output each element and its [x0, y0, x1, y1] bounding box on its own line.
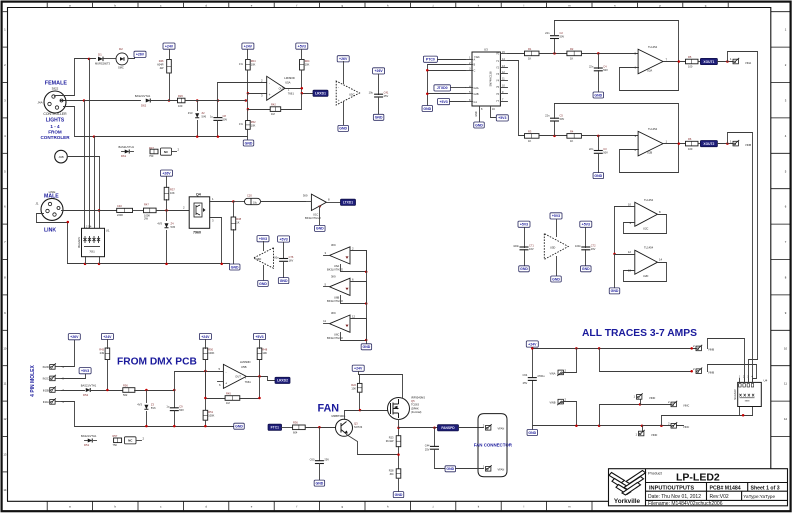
- svg-text:CONTROLER: CONTROLER: [40, 135, 70, 140]
- svg-text:1M: 1M: [271, 112, 275, 116]
- svg-text:NBN: NBN: [745, 401, 750, 403]
- signal LRXD2: [275, 377, 290, 383]
- svg-text:GND: GND: [259, 282, 267, 286]
- svg-text:J4A: J4A: [37, 100, 42, 104]
- title block: [609, 469, 788, 506]
- svg-text:U6B: U6B: [334, 296, 339, 300]
- svg-text:+5V3: +5V3: [298, 44, 306, 48]
- svg-text:Filename: M1484V02schuch2006: Filename: M1484V02schuch2006: [648, 501, 723, 507]
- rail junctions: [93, 135, 96, 138]
- svg-text:R56: R56: [123, 383, 128, 387]
- power +24V dmx2: [199, 333, 211, 339]
- resistor R1: [525, 51, 540, 56]
- svg-text:BAS21/VTH1: BAS21/VTH1: [135, 94, 151, 98]
- svg-text:U2B: U2B: [647, 151, 652, 155]
- pin VIND2: [642, 426, 644, 431]
- svg-text:U3: U3: [484, 47, 488, 51]
- power +24V dist: [526, 341, 538, 347]
- svg-text:R46: R46: [159, 59, 164, 63]
- wire ftc1 to r36: [282, 427, 293, 429]
- svg-text:2200: 2200: [117, 213, 123, 217]
- connector J4B: [55, 150, 68, 163]
- wire vinb to bus B: [728, 133, 753, 383]
- svg-text:Q3: Q3: [354, 422, 358, 426]
- wire IN2C to +5V3: [62, 374, 86, 379]
- svg-text:R3: R3: [528, 129, 532, 133]
- svg-text:R37: R37: [170, 188, 175, 192]
- svg-text:GND: GND: [446, 467, 454, 471]
- svg-text:OUT: OUT: [279, 86, 285, 90]
- svg-text:7661: 7661: [89, 251, 95, 254]
- svg-text:U4: U4: [764, 379, 768, 383]
- svg-text:50V: 50V: [560, 117, 565, 121]
- svg-text:4700u: 4700u: [537, 374, 545, 378]
- svg-text:GND: GND: [339, 127, 347, 131]
- svg-text:R57: R57: [113, 434, 118, 438]
- signal LTXD1: [341, 199, 356, 205]
- svg-text:1K: 1K: [570, 57, 573, 61]
- wire y1 to r3: [508, 61, 525, 136]
- capacitor C5 feedback: [554, 122, 556, 136]
- wire r2 to opamp: [582, 53, 639, 55]
- wire u4 top pins: [739, 379, 741, 383]
- wire u2b feedback loop: [555, 104, 679, 173]
- svg-text:U5B: U5B: [241, 365, 247, 369]
- svg-text:C8: C8: [223, 114, 227, 118]
- wire gnd to fan pin1: [456, 468, 484, 470]
- svg-text:J1: J1: [35, 202, 39, 206]
- resistor R2: [567, 51, 582, 56]
- svg-text:12: 12: [784, 417, 788, 421]
- svg-text:13: 13: [3, 453, 7, 457]
- svg-text:4V3: 4V3: [157, 222, 162, 226]
- svg-text:249: 249: [100, 351, 105, 355]
- svg-text:GND: GND: [476, 111, 478, 116]
- svg-text:G2B: G2B: [474, 93, 479, 96]
- resistor R57 NC: [114, 438, 122, 443]
- power +26V c41: [373, 68, 385, 74]
- svg-text:C20: C20: [247, 194, 252, 198]
- svg-text:LP-LED2: LP-LED2: [676, 472, 720, 484]
- wire male dmx line: [62, 210, 117, 212]
- svg-text:C2: C2: [560, 31, 564, 35]
- svg-text:FANSPD: FANSPD: [441, 426, 455, 430]
- svg-text:+5V3: +5V3: [255, 335, 263, 339]
- svg-text:U1C: U1C: [313, 212, 318, 216]
- svg-text:+24V: +24V: [201, 335, 210, 339]
- gnd rail left: [64, 107, 248, 137]
- wire u4 bottom stubs: [739, 407, 741, 416]
- opamp U2D: [635, 250, 658, 274]
- signal LRXD1: [313, 90, 328, 96]
- wire D2 to +26V: [129, 57, 135, 59]
- svg-text:C71: C71: [529, 244, 534, 248]
- wire q3 emitter: [347, 435, 399, 455]
- ground gnd1: [243, 140, 254, 146]
- svg-text:13: 13: [628, 269, 632, 273]
- svg-text:+26V: +26V: [162, 171, 171, 175]
- svg-text:C64: C64: [523, 373, 528, 377]
- svg-text:10K: 10K: [351, 386, 356, 390]
- svg-text:3K/1W: 3K/1W: [386, 439, 394, 443]
- wire U2D feedback: [624, 263, 667, 282]
- svg-text:25V: 25V: [523, 381, 528, 385]
- svg-text:+: +: [225, 381, 227, 385]
- wire dist left col: [532, 348, 534, 378]
- resistor R26: [178, 98, 186, 103]
- mosfet Q5 IRF9540NS: [388, 398, 410, 420]
- svg-text:VINB: VINB: [745, 143, 751, 147]
- wire r4 to opamp: [582, 135, 639, 137]
- node vinb2: [690, 370, 693, 373]
- svg-text:1M: 1M: [226, 401, 230, 405]
- svg-text:R45: R45: [226, 391, 231, 395]
- wire to opamp +in: [218, 83, 267, 101]
- ground C72: [581, 266, 592, 272]
- capacitor C76: [278, 236, 290, 242]
- capacitor C4 shunt: [598, 54, 600, 69]
- svg-text:604: 604: [293, 430, 298, 434]
- pin VIND1: [640, 400, 642, 405]
- wire u2 input bus: [614, 207, 616, 288]
- ground gnd male rail: [229, 264, 240, 270]
- opamp U2C: [635, 202, 658, 226]
- svg-text:R52: R52: [251, 120, 256, 124]
- svg-text:GND: GND: [552, 277, 560, 281]
- svg-text:16V: 16V: [529, 247, 534, 251]
- wire u2b out: [664, 143, 686, 145]
- svg-text:R48: R48: [262, 348, 267, 352]
- wire U6C input stub: [324, 323, 330, 325]
- svg-text:SN74HC138: SN74HC138: [489, 71, 493, 87]
- diode D61 BAS21 spare: [125, 149, 130, 153]
- ground c76: [278, 278, 289, 284]
- svg-text:IN2C: IN2C: [43, 377, 49, 381]
- svg-text:10K: 10K: [305, 63, 310, 67]
- resistor R48 10K: [257, 348, 262, 360]
- wire dmx line A: [67, 100, 141, 102]
- regulator Q4 7960: [189, 197, 210, 229]
- svg-text:10K: 10K: [170, 191, 175, 195]
- svg-text:Q5: Q5: [411, 399, 415, 403]
- node dmx in: [106, 389, 109, 392]
- svg-text:16V: 16V: [289, 259, 294, 263]
- svg-text:100: 100: [688, 65, 693, 69]
- node U6C out: [365, 339, 368, 342]
- svg-text:3K9: 3K9: [331, 274, 336, 278]
- svg-text:FROM: FROM: [48, 130, 62, 135]
- ground c3: [593, 173, 604, 179]
- signal XOUT2: [700, 141, 717, 147]
- svg-text:GND: GND: [395, 493, 403, 497]
- resistor R43 249: [105, 348, 110, 360]
- svg-text:25V: 25V: [324, 457, 329, 461]
- svg-text:JTXD0: JTXD0: [437, 86, 448, 90]
- svg-text:+26V: +26V: [136, 53, 145, 57]
- resistor R46 604R: [167, 60, 172, 74]
- wire dmx gnd rail: [62, 402, 234, 427]
- resistor R27 NC: [150, 149, 158, 154]
- svg-text:IN2D: IN2D: [43, 365, 49, 369]
- svg-text:LRXD1: LRXD1: [315, 92, 326, 96]
- wire to opamp -in: [248, 93, 267, 95]
- svg-text:+: +: [269, 93, 271, 97]
- wire U2D +in: [615, 254, 635, 256]
- diode D1 MURS260T3: [98, 57, 103, 62]
- ground u3 inputs: [422, 106, 433, 112]
- svg-text:10: 10: [628, 202, 632, 206]
- svg-text:-: -: [269, 81, 270, 85]
- node out: [301, 87, 304, 90]
- svg-text:LINK: LINK: [44, 228, 56, 234]
- svg-text:ALL TRACES 3-7 AMPS: ALL TRACES 3-7 AMPS: [582, 328, 697, 339]
- svg-text:XOUT2: XOUT2: [703, 142, 714, 146]
- svg-text:100n: 100n: [273, 255, 279, 259]
- svg-text:+24V: +24V: [244, 44, 253, 48]
- svg-text:U6A: U6A: [334, 264, 339, 268]
- resistor R6: [686, 141, 699, 146]
- ground c60: [314, 480, 325, 486]
- wire u4 bottom rail: [662, 416, 753, 426]
- wire winb down: [564, 402, 577, 426]
- svg-text:SOT23: SOT23: [354, 425, 363, 429]
- svg-text:4 PIN MOLEX: 4 PIN MOLEX: [30, 365, 36, 397]
- power +5V3 u3: [438, 99, 450, 105]
- resistor R36: [293, 425, 306, 430]
- svg-text:R24: R24: [305, 59, 310, 63]
- connector fan housing: [478, 414, 507, 477]
- wire u6b -in stub: [218, 381, 224, 383]
- resistor R23 3K: [396, 436, 401, 447]
- svg-text:Q4: Q4: [196, 192, 201, 196]
- wire R52 to gnd: [247, 130, 249, 141]
- svg-text:GND: GND: [363, 345, 371, 349]
- diode D62 BAS21: [146, 98, 151, 102]
- resistor R45 1M feedback: [205, 372, 207, 399]
- svg-text:14: 14: [659, 258, 663, 262]
- svg-text:BK3L/VTH1/2: BK3L/VTH1/2: [327, 299, 343, 303]
- svg-text:-: -: [338, 85, 339, 89]
- svg-text:3822: 3822: [52, 86, 59, 90]
- wire BC gnd tie: [428, 65, 466, 106]
- wire +24V to mosfet source: [359, 375, 403, 398]
- svg-text:100n: 100n: [575, 244, 581, 248]
- svg-text:5V6: 5V6: [151, 406, 156, 410]
- capacitor C71: [518, 221, 530, 227]
- svg-text:2W: 2W: [144, 217, 148, 221]
- svg-text:U2C: U2C: [643, 226, 648, 230]
- svg-text:C5: C5: [560, 114, 564, 118]
- svg-text:VINA: VINA: [549, 372, 555, 376]
- svg-text:3K9: 3K9: [303, 193, 308, 197]
- node top rail junction: [88, 58, 91, 61]
- svg-text:TO263: TO263: [411, 403, 419, 407]
- svg-text:BAS21/VTH1: BAS21/VTH1: [81, 434, 97, 438]
- svg-text:-: -: [226, 370, 227, 374]
- svg-text:LTXD1: LTXD1: [343, 201, 353, 205]
- power +5V3 pullup dmx: [254, 333, 266, 339]
- svg-text:50V: 50V: [603, 68, 608, 72]
- connector J4A female XLR: [44, 91, 66, 113]
- svg-text:7661: 7661: [245, 380, 252, 384]
- svg-text:D52: D52: [83, 393, 89, 397]
- svg-text:FAN CONNECTOR: FAN CONNECTOR: [474, 443, 513, 448]
- wire rail drop2: [600, 349, 692, 372]
- svg-text:MAGADV: MAGADV: [77, 237, 81, 249]
- power +26V: [134, 51, 146, 57]
- svg-text:50V: 50V: [223, 118, 228, 122]
- ground c41: [373, 114, 384, 120]
- svg-text:LRXD2: LRXD2: [277, 379, 288, 383]
- svg-text:GND: GND: [611, 289, 619, 293]
- svg-text:GND: GND: [594, 93, 602, 97]
- svg-text:C: C: [474, 70, 476, 73]
- svg-text:R23: R23: [389, 436, 394, 440]
- svg-text:5V6: 5V6: [202, 115, 207, 119]
- svg-text:4V3: 4V3: [188, 111, 193, 115]
- svg-text:TL1454: TL1454: [648, 127, 658, 131]
- svg-text:C3: C3: [603, 147, 607, 151]
- svg-text:MURS260T3: MURS260T3: [95, 62, 111, 66]
- svg-text:IN2A: IN2A: [43, 400, 49, 404]
- svg-text:U5D: U5D: [550, 245, 555, 249]
- zener Z2 5V6: [197, 101, 199, 111]
- wire U6C feedback loop: [351, 319, 367, 341]
- svg-text:VIND: VIND: [651, 433, 657, 437]
- wire r1 junction: [540, 53, 567, 55]
- wire R46 down: [169, 50, 171, 60]
- capacitor C41: [378, 75, 380, 95]
- svg-text:562: 562: [123, 393, 128, 397]
- svg-text:1 - 4: 1 - 4: [50, 124, 60, 129]
- svg-text:MAGADV: MAGADV: [734, 389, 737, 400]
- svg-text:12: 12: [3, 417, 7, 421]
- svg-text:R51: R51: [208, 410, 213, 414]
- ground u2 bus: [609, 288, 620, 294]
- svg-text:IRF9540NS: IRF9540NS: [411, 395, 425, 399]
- svg-text:10u: 10u: [253, 202, 258, 205]
- diode D2 bridge: [116, 53, 128, 65]
- opamp U2E spare: [550, 213, 562, 219]
- ground c4: [593, 92, 604, 98]
- svg-text:GND: GND: [520, 267, 528, 271]
- svg-text:10: 10: [784, 346, 788, 350]
- wire r36 to q3 base: [306, 427, 337, 429]
- opamp U1C buffer: [311, 194, 326, 210]
- svg-text:25V: 25V: [384, 94, 389, 98]
- wire y0 to r1: [508, 53, 525, 55]
- zener Z4 link: [166, 211, 168, 221]
- svg-text:100K: 100K: [208, 414, 214, 418]
- wire vina to bus A: [728, 52, 758, 360]
- capacitor C2 feedback: [554, 39, 556, 54]
- wire xout2 node: [718, 143, 734, 145]
- svg-text:10: 10: [3, 346, 7, 350]
- svg-text:U2A: U2A: [647, 69, 652, 73]
- ground C71: [519, 266, 530, 272]
- svg-text:4V3: 4V3: [137, 403, 142, 407]
- capacitor C8: [217, 101, 219, 118]
- svg-text:(Furnital): (Furnital): [411, 410, 422, 414]
- optocoupler U1: [82, 228, 105, 256]
- capacitor C20: [234, 201, 245, 203]
- wire bus line1: [84, 101, 86, 229]
- wire dmx to opamp: [175, 372, 224, 391]
- svg-text:+5V3: +5V3: [279, 237, 287, 241]
- svg-text:50V: 50V: [560, 35, 565, 39]
- svg-text:GND: GND: [528, 431, 536, 435]
- resistor R04 10K: [246, 60, 251, 71]
- svg-text:R50: R50: [208, 348, 213, 352]
- svg-text:U6D: U6D: [256, 257, 261, 261]
- svg-text:Sheet 1 of 3: Sheet 1 of 3: [751, 485, 780, 491]
- wire ptc0 to A: [438, 59, 466, 61]
- signal XOUT1: [700, 58, 717, 64]
- ic U3 74HC138: [472, 52, 500, 106]
- svg-text:R43: R43: [99, 348, 104, 352]
- svg-text:7960: 7960: [193, 231, 201, 235]
- svg-text:50V: 50V: [179, 408, 184, 412]
- wire r6 to xout2: [699, 143, 701, 145]
- svg-text:50V: 50V: [603, 151, 608, 155]
- resistor R24 pullup: [300, 60, 305, 71]
- svg-text:R38: R38: [236, 217, 241, 221]
- wire q3 collector to gate node: [345, 411, 361, 420]
- svg-text:+5V3: +5V3: [259, 237, 267, 241]
- ground comparator bus: [361, 344, 372, 350]
- svg-text:D62: D62: [141, 103, 147, 107]
- svg-text:+5V3: +5V3: [81, 369, 89, 373]
- resistor R3: [525, 134, 540, 139]
- diode D52 BAS21: [62, 390, 85, 392]
- svg-text:750: 750: [149, 154, 154, 158]
- svg-text:U2D: U2D: [643, 274, 648, 278]
- resistor R52: [246, 121, 251, 130]
- svg-text:VFAN: VFAN: [498, 426, 505, 430]
- svg-text:OUT: OUT: [235, 374, 241, 378]
- svg-text:FROM DMX PCB: FROM DMX PCB: [117, 356, 197, 367]
- svg-text:VINB: VINB: [549, 401, 555, 405]
- capacitor C60: [319, 428, 321, 461]
- wire D1 to D2: [104, 58, 117, 60]
- svg-text:Yorkville: Yorkville: [614, 498, 641, 505]
- svg-text:LM393D: LM393D: [240, 360, 251, 364]
- svg-text:GND: GND: [245, 141, 253, 145]
- svg-text:10K: 10K: [262, 351, 267, 355]
- node U6B out: [365, 302, 368, 305]
- wire pullup: [301, 50, 303, 60]
- power +24V col2: [242, 43, 254, 49]
- svg-text:GND: GND: [582, 267, 590, 271]
- zener Z3 dmx: [146, 391, 148, 403]
- svg-text:XOUT1: XOUT1: [703, 60, 714, 64]
- svg-text:PCB# M1484: PCB# M1484: [710, 485, 741, 491]
- power +5V3 molex: [79, 368, 91, 374]
- svg-text:MMBT3904: MMBT3904: [332, 414, 346, 418]
- svg-text:BK3L/VTH1/2: BK3L/VTH1/2: [327, 268, 343, 272]
- svg-text:R26: R26: [178, 94, 183, 98]
- wire U6B feedback loop: [351, 282, 367, 304]
- svg-text:BAS21/VTH1: BAS21/VTH1: [119, 145, 135, 149]
- svg-text:22n: 22n: [589, 147, 594, 151]
- wire u3 gnd pin: [479, 107, 481, 122]
- svg-text:VFAN: VFAN: [498, 467, 505, 471]
- wire comparator bus to gnd: [366, 251, 368, 344]
- diode D51 BAS21 spare: [88, 438, 93, 442]
- svg-text:7661: 7661: [288, 92, 295, 96]
- svg-text:BK3L/VTH1/2: BK3L/VTH1/2: [305, 216, 321, 220]
- svg-text:C9: C9: [179, 405, 183, 409]
